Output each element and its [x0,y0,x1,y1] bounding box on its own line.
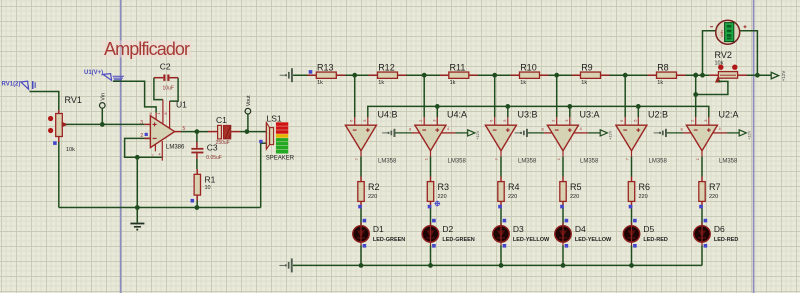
ground bus wire [59,207,261,209]
node bottom bus D4 [561,263,566,268]
wire C3 to R1 [196,159,198,169]
svg-text:LED-GREEN: LED-GREEN [442,237,474,243]
wire D4 to bottom bus [562,246,564,266]
wire rail to U2:B minus input [624,75,626,117]
wire C3 column [196,132,198,142]
svg-text:+12V: +12V [607,130,612,140]
wire end marker a D3 [498,205,502,209]
node bus tap U2:B [636,104,641,109]
svg-text:1k: 1k [657,80,663,86]
sheet border right [753,0,755,293]
wire RV1 wiper to U1 pin3 [66,123,144,125]
svg-text:220: 220 [639,194,648,200]
svg-text:10k: 10k [66,147,75,153]
ground symbol bottom bus [279,258,292,272]
svg-text:Amplficador: Amplficador [104,39,190,59]
svg-text:+12V: +12V [781,71,786,82]
node rail tap U3:A [554,73,559,78]
wire rail to U3:A minus input [556,75,558,117]
voltmeter RV2 display [710,20,747,44]
pin 2 lead [144,137,150,139]
svg-text:R4: R4 [508,182,520,192]
resistor R1 [194,169,200,201]
capacitor C3 [191,142,203,159]
pin 7 lead [154,145,156,152]
svg-text:1k: 1k [450,80,456,86]
wire bus to U3:B plus input [507,106,509,117]
pin lead U3:A output [562,151,564,157]
resistor R8 [648,72,686,78]
wire U1(V+) to pin6 [113,81,156,112]
wire C2 left to pin1 [154,78,163,100]
title Amplficador [103,39,192,59]
svg-text:D4: D4 [575,224,586,234]
power terminal +12V rail [771,72,778,79]
svg-text:U4:B: U4:B [378,109,398,119]
node rail tap U3:B [492,73,497,78]
svg-text:LM358: LM358 [649,158,668,164]
wire end marker c D5 [633,244,637,248]
U4:A input marks [422,128,439,132]
svg-text:10uF: 10uF [163,86,174,92]
marker R3 bottom [435,201,441,207]
svg-text:U1: U1 [176,100,187,110]
svg-text:LED-RED: LED-RED [643,237,667,243]
ground symbol U2:A [654,129,667,137]
pin 3 lead [144,123,150,125]
speaker level display [275,122,288,154]
svg-text:RV1: RV1 [65,95,82,105]
svg-text:U2:A: U2:A [719,109,739,119]
wire end marker a D5 [629,205,633,209]
ground symbol U3:A [515,129,528,137]
wire C1 to speaker node [240,131,247,133]
pin leads U3:A inputs [556,117,558,125]
pin lead U4:B output [360,151,362,157]
wire U3:A V- pin [528,132,545,134]
wire end marker a D2 [428,205,432,209]
svg-text:LED-GREEN: LED-GREEN [373,237,405,243]
terminal Vin [100,93,107,108]
svg-text:LM386: LM386 [166,144,185,150]
ground symbol amplifier [130,208,144,231]
wire R2 to D1 [360,206,362,226]
power tag U1(V+) [84,70,124,80]
wire bus to U4:A plus input [436,106,438,117]
svg-text:10: 10 [205,185,211,191]
bottom bus wire [293,264,702,266]
wire node to speaker [247,131,267,133]
svg-text:R3: R3 [438,182,450,192]
wire end marker speaker [259,140,262,143]
wire D2 to bottom bus [430,246,432,266]
node rail-R8 junction [693,73,698,78]
op-amp U3:A [547,125,578,151]
sheet border left [120,0,122,293]
svg-text:R7: R7 [709,182,721,192]
wire D5 to bottom bus [631,246,633,266]
power terminal +12V U2:A [739,130,746,136]
terminal tag RV1(2) [2,81,36,89]
svg-text:R9: R9 [581,62,593,72]
top rail wire [293,74,709,76]
wire junction to ground bus [136,157,138,207]
resistor R10 [511,72,549,78]
wire RV1 to ground bus [58,142,60,208]
resistor R13 [307,72,345,78]
wire end marker c D3 [503,244,507,248]
U1 plus mark [153,122,157,126]
wire U3:A V+ pin [574,132,588,134]
svg-text:1k: 1k [378,80,384,86]
svg-text:220: 220 [570,194,579,200]
op-amp U1 LM386 [150,116,174,148]
speaker LS1 [266,123,273,150]
svg-text:Vout: Vout [246,95,252,106]
node ground bus junction [135,205,140,210]
svg-text:D5: D5 [643,224,654,234]
wire D3 to bottom bus [500,246,502,266]
wire U3:B output to resistor [500,157,502,177]
svg-text:R1: R1 [205,174,216,184]
svg-text:R6: R6 [639,182,651,192]
svg-text:R11: R11 [450,62,466,72]
power terminal +12V U3:A [600,130,607,136]
svg-text:U4:A: U4:A [447,109,467,119]
resistor R4 [498,177,504,207]
node Vin junction [100,122,105,127]
potentiometer RV1 [48,110,67,142]
svg-text:D6: D6 [714,224,725,234]
wire R6 to D5 [631,206,633,226]
svg-text:LM358: LM358 [378,158,397,164]
svg-text:1k: 1k [520,80,526,86]
op-amp U2:A [686,125,717,151]
node Vout junction [245,129,250,134]
svg-text:R5: R5 [570,182,582,192]
potentiometer RV2 [709,65,747,82]
resistor R11 [440,72,478,78]
op-amp U3:B [485,125,516,151]
wire end marker b D6 [704,219,708,223]
U2:A input marks [694,128,711,132]
pin leads U3:B inputs [494,117,496,125]
wire U4:A V+ pin [442,132,456,134]
svg-text:220: 220 [438,194,447,200]
svg-text:U1(V+): U1(V+) [84,70,103,76]
svg-text:1k: 1k [581,80,587,86]
U3:A input marks [555,128,572,132]
node rail tap U2:B [623,73,628,78]
wire R7 to D6 [701,206,703,226]
op-amp U4:A [415,125,446,151]
node rail tap U4:B [352,73,357,78]
svg-text:RV2: RV2 [715,50,732,60]
capacitor C2 [154,75,178,81]
wire end marker R13 [309,70,313,74]
svg-text:LED-YELLOW: LED-YELLOW [513,237,550,243]
svg-text:+12V: +12V [746,130,751,140]
wire U2:A V- pin [667,132,684,134]
node bus tap U3:A [567,104,572,109]
wire R1 to ground bus [196,201,198,208]
wire end marker a D4 [560,205,564,209]
wire U4:A V- pin [395,132,412,134]
wire bus to U2:B plus input [637,106,639,117]
svg-text:R2: R2 [368,182,380,192]
resistor R2 [358,177,364,207]
svg-text:SPEAKER: SPEAKER [266,155,295,161]
svg-text:LM358: LM358 [518,158,537,164]
pin lead U2:A output [701,151,703,157]
node rail tap U4:A [422,73,427,78]
wire end marker c D2 [432,244,436,248]
pin leads U4:B inputs [354,117,356,125]
svg-text:U2:B: U2:B [648,109,668,119]
pin 8 lead [169,101,171,128]
wire rail to U3:B minus input [494,75,496,117]
plus input bus wire [368,106,709,117]
U1 minus mark [153,137,157,139]
LED D5 [623,222,639,245]
wire U2:B output to resistor [631,157,633,177]
op-amp U4:B [345,125,376,151]
pin leads U2:A inputs [695,117,697,125]
op-amp U2:B [616,125,647,151]
wire D6 to bottom bus [701,246,703,266]
svg-text:Vin: Vin [100,93,106,101]
node bottom bus D2 [428,263,433,268]
pin leads U4:A inputs [423,117,425,125]
node bottom bus D1 [359,263,364,268]
resistor R9 [572,72,610,78]
wire meter left [703,31,716,75]
svg-text:C3: C3 [207,143,218,153]
wire U4:B output to resistor [360,157,362,177]
node output junction [195,129,200,134]
wire end marker a D6 [699,205,703,209]
resistor R6 [628,177,634,207]
wire U4:A output to resistor [430,157,432,177]
svg-text:RV1(2): RV1(2) [2,81,21,87]
LED D1 [353,222,369,245]
U2:B input marks [623,128,640,132]
LED D4 [555,222,571,245]
svg-text:220: 220 [508,194,517,200]
svg-text:C1: C1 [216,115,227,125]
LED D2 [422,222,438,245]
svg-text:R12: R12 [378,62,395,72]
node bottom bus D3 [499,263,504,268]
svg-text:D2: D2 [442,224,453,234]
node R1 ground junction [195,205,200,210]
svg-text:D3: D3 [513,224,524,234]
wire R4 to D3 [500,206,502,226]
wire U3:A output to resistor [562,157,564,177]
wire meter right [740,31,758,75]
pin 4 lead [161,141,163,161]
wire U2:A V+ pin [713,132,727,134]
wire end marker c D6 [704,244,708,248]
svg-text:LED-RED: LED-RED [714,237,738,243]
wire rail to arrow [747,74,771,76]
wire Vout to node [247,114,249,132]
capacitor C1 electrolytic [208,125,240,138]
wire rail to U4:B minus input [354,75,356,117]
svg-text:0.05uF: 0.05uF [206,155,222,161]
wire U1 out to C1 [181,131,208,133]
svg-text:R10: R10 [520,62,537,72]
svg-text:220: 220 [368,194,377,200]
node rail-meter-right junction [755,73,760,78]
wire end marker b D2 [432,219,436,223]
svg-text:Volts: Volts [720,30,724,38]
ground symbol U4:A [382,129,395,137]
node rail tap U2:A [693,73,698,78]
svg-text:D1: D1 [373,224,384,234]
svg-text:LM358: LM358 [448,158,467,164]
node bus tap U3:B [505,104,510,109]
pin lead U3:B output [500,151,502,157]
wire R5 to D4 [562,206,564,226]
wire end marker b D5 [633,219,637,223]
svg-text:LM358: LM358 [580,158,599,164]
wire U2:A output to resistor [701,157,703,177]
wire end marker pin2 [145,133,148,136]
pin 6 lead [155,113,157,121]
wire rail to U2:A minus input [695,75,697,117]
svg-text:LM358: LM358 [719,158,738,164]
wire R3 to D2 [430,206,432,226]
wire Vin to signal [101,108,103,124]
node rail-meter-left junction [700,73,705,78]
wire U1 pin2 feedback [125,138,163,157]
svg-text:220: 220 [709,194,718,200]
wire C2 right to pin8 [170,78,179,101]
resistor R5 [560,177,566,207]
svg-text:R13: R13 [317,62,334,72]
pin leads U2:B inputs [624,117,626,125]
power terminal +12V U4:A [468,130,475,136]
resistor R7 [699,177,705,207]
ground symbol ladder left [280,68,293,82]
svg-text:LED-YELLOW: LED-YELLOW [575,237,612,243]
wire RV2 wiper to ladder top [696,81,728,94]
wire speaker bottom to bus [261,143,267,207]
pin 1 lead [162,100,164,124]
node bottom bus D5 [629,263,634,268]
resistor R3 [427,177,433,207]
wire end marker a D1 [358,205,362,209]
svg-text:U3:B: U3:B [518,109,538,119]
svg-text:LS1: LS1 [267,113,282,123]
node wiper junction [693,92,698,97]
wire D1 to bottom bus [360,246,362,266]
wire tag to RV1 top [30,92,59,111]
wire end marker b D1 [363,219,367,223]
node bus tap U4:A [435,104,440,109]
svg-text:10k: 10k [715,61,724,67]
svg-text:1k: 1k [317,80,323,86]
svg-text:250uF: 250uF [216,140,230,146]
wire end marker b D3 [503,219,507,223]
svg-text:R8: R8 [657,62,669,72]
resistor R12 [369,72,407,78]
pin 5 output lead [175,131,181,133]
wire end marker R1 [191,199,195,203]
pin lead U4:A output [430,151,432,157]
LED D6 [694,222,710,245]
wire end marker b D4 [565,219,569,223]
U4:B input marks [353,128,370,132]
svg-text:2: 2 [140,133,143,139]
svg-text:+12V: +12V [475,130,480,140]
svg-text:3: 3 [140,120,143,126]
wire end marker c D4 [565,244,569,248]
pin lead U2:B output [631,151,633,157]
wire end marker c D1 [363,244,367,248]
terminal Vout [245,95,252,114]
svg-text:U3:A: U3:A [580,109,600,119]
U3:B input marks [493,128,510,132]
wire bus to U3:A plus input [569,106,571,117]
wire end marker [53,141,57,145]
wire rail to U4:A minus input [423,75,425,117]
LED D3 [493,222,509,245]
svg-text:C2: C2 [160,61,171,71]
node feedback-ground junction [135,155,140,160]
